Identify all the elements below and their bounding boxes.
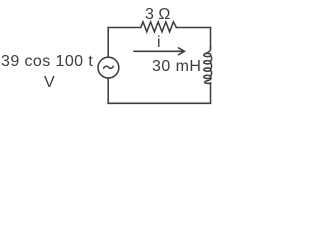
label i: [157, 35, 161, 51]
wire right vertical lower: [210, 83, 212, 103]
sine symbol inside source: [104, 66, 114, 68]
inductor L 30mH connector 3-4: [210, 71, 213, 76]
inductor L 30mH entry hook: [206, 47, 211, 54]
resistor R 3-ohm zigzag: [141, 22, 177, 32]
label 39 cos 100 t: [1, 54, 93, 70]
inductor L 30mH connector 2-3: [210, 63, 213, 68]
wire left vertical upper: [107, 28, 109, 58]
wire right vertical upper: [210, 28, 212, 48]
wire left vertical lower: [107, 78, 109, 103]
wire bottom: [108, 102, 210, 104]
source VS circle (ac): [98, 57, 119, 78]
label 30 mH: [152, 59, 201, 75]
inductor L 30mH exit curl: [205, 78, 211, 84]
arrowhead: [179, 48, 185, 55]
inductor L 30mH loop 4: [204, 75, 211, 78]
label 3 ohm: [145, 7, 170, 23]
inductor L 30mH connector 1-2: [210, 56, 213, 61]
wire top-left segment: [108, 27, 141, 29]
label V: [44, 75, 55, 91]
inductor L 30mH loop 1: [204, 53, 211, 56]
inductor L 30mH loop 2: [204, 61, 211, 64]
wire top-right segment: [176, 27, 210, 29]
inductor L 30mH loop 3: [204, 68, 211, 71]
current arrow i: [134, 50, 184, 52]
